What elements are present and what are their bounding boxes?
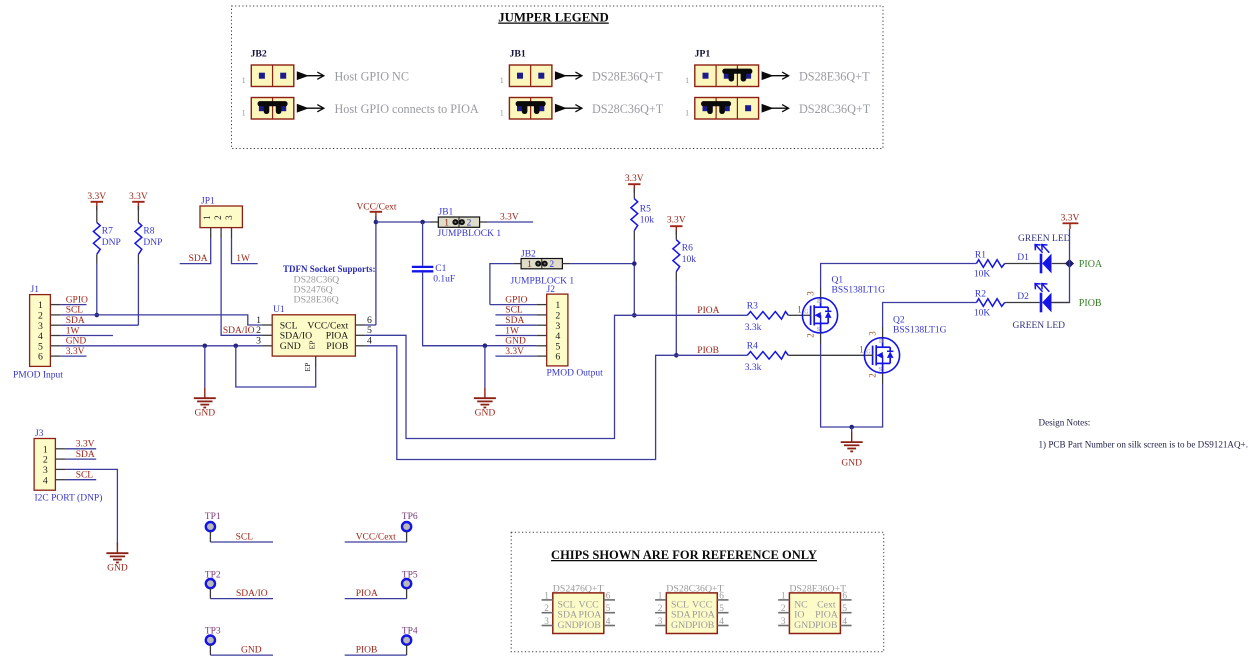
svg-text:3.3k: 3.3k bbox=[745, 323, 762, 333]
wire C1 bottom to GND wire bbox=[423, 272, 485, 345]
wire Q1 drain up to R1 row bbox=[821, 264, 977, 288]
wire SCL J1 to U1 pin1 bbox=[61, 315, 262, 325]
svg-text:GPIO: GPIO bbox=[66, 295, 88, 305]
jumper JB1 open bbox=[509, 65, 552, 87]
svg-text:DNP: DNP bbox=[102, 238, 121, 248]
svg-text:U1: U1 bbox=[273, 305, 285, 315]
SECTION: jumper legend bbox=[232, 6, 884, 149]
wire R7 to SCL bbox=[96, 264, 98, 316]
svg-text:1: 1 bbox=[527, 260, 532, 270]
ground (J3) bbox=[106, 543, 128, 563]
wire R4 to Q2 gate bbox=[788, 354, 865, 356]
arrow bbox=[297, 71, 324, 80]
svg-text:SDA: SDA bbox=[189, 254, 208, 264]
junction GND/gnd-symbol bbox=[203, 344, 208, 349]
svg-text:1W: 1W bbox=[236, 254, 250, 264]
svg-text:GND: GND bbox=[505, 337, 526, 347]
svg-text:S: S bbox=[817, 327, 820, 333]
svg-text:R4: R4 bbox=[747, 341, 758, 351]
svg-text:JB1: JB1 bbox=[510, 49, 526, 60]
wire J2 SCL stub bbox=[495, 314, 536, 316]
svg-text:GREEN LED: GREEN LED bbox=[1018, 234, 1071, 244]
resistor R1 bbox=[976, 260, 1004, 268]
svg-text:0.1uF: 0.1uF bbox=[433, 275, 455, 285]
resistor R7 bbox=[96, 206, 98, 222]
junction sources/GND bbox=[849, 425, 854, 430]
wire J1 GPIO stub bbox=[61, 304, 87, 306]
svg-text:SDA: SDA bbox=[76, 450, 95, 460]
svg-text:C1: C1 bbox=[435, 264, 446, 274]
svg-text:1W: 1W bbox=[505, 326, 519, 336]
wire 1W stub bbox=[61, 335, 113, 337]
svg-text:PIOB: PIOB bbox=[815, 620, 838, 631]
wire TP1 SCL bbox=[210, 541, 273, 543]
resistor R3 bbox=[747, 312, 788, 320]
svg-text:SCL: SCL bbox=[76, 471, 94, 481]
ground (Q1/Q2) bbox=[841, 432, 863, 452]
wire 3.3V down to junction bbox=[1069, 229, 1071, 264]
svg-text:10K: 10K bbox=[974, 270, 991, 280]
svg-text:Design Notes:: Design Notes: bbox=[1039, 418, 1091, 428]
svg-text:R6: R6 bbox=[682, 244, 693, 254]
svg-text:R1: R1 bbox=[975, 251, 986, 261]
svg-text:1: 1 bbox=[500, 108, 504, 118]
svg-text:CHIPS SHOWN ARE FOR REFERENCE: CHIPS SHOWN ARE FOR REFERENCE ONLY bbox=[551, 548, 817, 562]
wire PIOA from U1 pin5 bbox=[366, 315, 747, 438]
svg-text:DS28E36Q: DS28E36Q bbox=[294, 295, 339, 306]
svg-text:3.3V: 3.3V bbox=[87, 192, 106, 202]
svg-text:1: 1 bbox=[242, 108, 246, 118]
U1 pin numbers bbox=[256, 315, 372, 347]
svg-text:R5: R5 bbox=[640, 205, 651, 215]
svg-text:GND: GND bbox=[841, 459, 862, 469]
wire to gnd symbol bbox=[204, 346, 206, 388]
svg-text:JB1: JB1 bbox=[439, 208, 454, 218]
svg-text:SDA/IO: SDA/IO bbox=[223, 326, 255, 336]
svg-text:1: 1 bbox=[685, 75, 689, 85]
wire VCC vertical to U1 pin6 bbox=[375, 216, 377, 325]
svg-text:R8: R8 bbox=[143, 227, 154, 237]
svg-text:SCL: SCL bbox=[505, 306, 523, 316]
svg-text:EP: EP bbox=[303, 363, 312, 372]
chips reference dotted border bbox=[511, 532, 884, 652]
wire Q1 source down bbox=[821, 344, 852, 428]
svg-text:3: 3 bbox=[806, 291, 816, 296]
SECTION: bottom bbox=[205, 512, 884, 656]
svg-text:JP1: JP1 bbox=[201, 197, 215, 207]
svg-text:3.3V: 3.3V bbox=[625, 174, 644, 184]
svg-text:DS28E36Q+T: DS28E36Q+T bbox=[592, 70, 663, 84]
svg-text:10K: 10K bbox=[974, 309, 991, 319]
svg-text:Host GPIO NC: Host GPIO NC bbox=[335, 70, 410, 84]
svg-text:D: D bbox=[879, 339, 884, 345]
wire JP1 pin1 SDA stub bbox=[180, 238, 211, 264]
wire J3 pin3 to gnd bbox=[66, 469, 118, 545]
svg-text:3: 3 bbox=[256, 335, 261, 346]
wire J3 SDA stub bbox=[66, 458, 97, 460]
svg-text:S: S bbox=[879, 367, 882, 373]
svg-text:PMOD Output: PMOD Output bbox=[547, 369, 604, 379]
svg-text:JUMPER LEGEND: JUMPER LEGEND bbox=[498, 11, 609, 25]
wire J2 SDA stub bbox=[495, 324, 536, 326]
svg-text:PIOB: PIOB bbox=[1079, 298, 1102, 309]
svg-text:3.3V: 3.3V bbox=[500, 213, 519, 223]
svg-text:2: 2 bbox=[868, 373, 878, 378]
svg-text:JP1: JP1 bbox=[695, 49, 711, 60]
svg-text:1W: 1W bbox=[66, 326, 80, 336]
U1 pin stubs bbox=[262, 325, 366, 367]
svg-text:4: 4 bbox=[43, 475, 48, 486]
svg-text:PIOB: PIOB bbox=[326, 341, 348, 352]
wire junction down to D2 row bbox=[1052, 264, 1070, 303]
wire TP4 PIOB bbox=[345, 654, 407, 656]
wire VCC to JB1 bbox=[376, 221, 431, 223]
legend dotted border bbox=[232, 6, 884, 149]
junction GND J2 bbox=[483, 343, 488, 348]
svg-text:DS28E36Q+T: DS28E36Q+T bbox=[799, 70, 870, 84]
svg-text:3.3V: 3.3V bbox=[1061, 214, 1080, 224]
wire GND J1 to U1 pin3 bbox=[61, 345, 262, 347]
svg-text:BSS138LT1G: BSS138LT1G bbox=[832, 286, 886, 296]
svg-text:GND: GND bbox=[794, 620, 815, 631]
junction VCC wire bbox=[374, 220, 379, 225]
svg-text:R3: R3 bbox=[747, 301, 758, 311]
svg-text:Q1: Q1 bbox=[832, 276, 844, 286]
capacitor C1 bbox=[422, 222, 424, 266]
svg-text:JUMPBLOCK 1: JUMPBLOCK 1 bbox=[511, 277, 575, 287]
svg-text:3.3V: 3.3V bbox=[76, 440, 95, 450]
svg-text:1: 1 bbox=[444, 219, 449, 229]
arrow bbox=[555, 104, 582, 113]
svg-text:BSS138LT1G: BSS138LT1G bbox=[893, 326, 947, 336]
wire Q2 drain up to R2 row bbox=[883, 303, 977, 328]
svg-text:GND: GND bbox=[241, 646, 262, 656]
svg-text:G: G bbox=[804, 310, 809, 316]
svg-text:1: 1 bbox=[797, 305, 802, 315]
svg-text:VCC/Cext: VCC/Cext bbox=[356, 533, 396, 543]
svg-text:GND: GND bbox=[195, 409, 216, 419]
svg-text:R2: R2 bbox=[975, 290, 986, 300]
wire to gnd (Q1/Q2) bbox=[851, 427, 853, 432]
wire to gnd symbol (J2) bbox=[484, 346, 486, 388]
svg-text:GREEN LED: GREEN LED bbox=[1013, 321, 1066, 331]
wire JB1 to 3.3V stub bbox=[480, 221, 488, 223]
junction R5/PIOA bbox=[632, 313, 637, 318]
svg-text:2: 2 bbox=[549, 260, 554, 270]
wire EP loop bbox=[236, 346, 316, 387]
wire J2 GND (from C1 drop) bbox=[423, 345, 537, 347]
svg-text:DNP: DNP bbox=[143, 238, 162, 248]
wire 3.3V stub bbox=[61, 355, 87, 357]
svg-text:PIOB: PIOB bbox=[692, 620, 715, 631]
svg-text:Host GPIO connects to PIOA: Host GPIO connects to PIOA bbox=[335, 102, 479, 116]
svg-text:GND: GND bbox=[107, 564, 128, 574]
junction GND/EP loop bbox=[234, 344, 239, 349]
svg-text:D: D bbox=[817, 299, 822, 305]
svg-text:SCL: SCL bbox=[236, 533, 254, 543]
svg-text:10k: 10k bbox=[640, 216, 655, 226]
wire TP3 GND bbox=[210, 654, 273, 656]
svg-text:DS28C36Q+T: DS28C36Q+T bbox=[799, 102, 871, 116]
wire TP6 VCC/Cext bbox=[345, 541, 407, 543]
jumper JB2 shunted bbox=[251, 98, 293, 120]
svg-text:2: 2 bbox=[806, 333, 816, 338]
svg-text:1: 1 bbox=[859, 345, 864, 355]
svg-text:PMOD Input: PMOD Input bbox=[13, 371, 63, 381]
junction R6/PIOB bbox=[674, 353, 679, 358]
svg-text:1: 1 bbox=[202, 215, 212, 220]
svg-text:R7: R7 bbox=[102, 227, 113, 237]
svg-text:1: 1 bbox=[685, 108, 689, 118]
ground (J2) bbox=[474, 388, 496, 408]
wire TP5 PIOA bbox=[345, 598, 407, 600]
wire JP1 pin2 down to U1 pin2 bbox=[221, 238, 262, 335]
arrow bbox=[762, 71, 789, 80]
svg-text:10k: 10k bbox=[682, 255, 697, 265]
svg-text:EP: EP bbox=[308, 341, 317, 350]
svg-text:3: 3 bbox=[224, 215, 234, 220]
wire R2 to D2 bbox=[1005, 302, 1040, 304]
svg-text:3.3k: 3.3k bbox=[745, 363, 762, 373]
svg-text:SCL: SCL bbox=[66, 306, 84, 316]
wire Q2 source down bbox=[852, 384, 883, 428]
J1 pin stubs bbox=[50, 305, 60, 357]
svg-text:GND: GND bbox=[66, 337, 87, 347]
wire R3 to Q1 gate bbox=[788, 314, 803, 316]
jumper JB1 shunted bbox=[509, 98, 552, 120]
resistor R2 bbox=[976, 299, 1004, 307]
wire J2 GPIO from JB2 bbox=[490, 304, 537, 306]
junction JB2/R5 bbox=[632, 261, 637, 266]
svg-text:GPIO: GPIO bbox=[505, 295, 527, 305]
svg-text:SDA: SDA bbox=[505, 316, 524, 326]
svg-text:DS28C36Q+T: DS28C36Q+T bbox=[592, 102, 664, 116]
wire R6 down to PIOB bbox=[675, 281, 677, 355]
wire J2 1W stub bbox=[495, 335, 536, 337]
wire R1 to D1 bbox=[1005, 263, 1040, 265]
wire J2 3.3V stub bbox=[495, 355, 536, 357]
svg-text:3.3V: 3.3V bbox=[66, 347, 85, 357]
svg-text:SDA/IO: SDA/IO bbox=[236, 589, 268, 599]
J2 pin stubs bbox=[536, 305, 546, 357]
svg-text:PIOB: PIOB bbox=[697, 346, 719, 356]
arrow bbox=[555, 71, 582, 80]
wire D2 anode bbox=[1052, 302, 1070, 304]
svg-text:TP1: TP1 bbox=[205, 512, 221, 522]
svg-text:Q2: Q2 bbox=[893, 316, 905, 326]
svg-text:SDA: SDA bbox=[66, 316, 85, 326]
svg-text:GND: GND bbox=[671, 620, 692, 631]
wire JB2 to R5 junction bbox=[562, 263, 570, 265]
jumper JP1 row1 3pin shunt right bbox=[695, 65, 759, 87]
arrow bbox=[762, 104, 789, 113]
junction R7/SCL bbox=[95, 313, 100, 318]
resistor R8 bbox=[137, 206, 139, 222]
SECTION: center bbox=[223, 203, 634, 419]
jumper JP1 row2 3pin shunt left bbox=[695, 98, 759, 120]
svg-text:1: 1 bbox=[500, 75, 504, 85]
svg-text:2: 2 bbox=[467, 219, 472, 229]
svg-text:3.3V: 3.3V bbox=[129, 192, 148, 202]
svg-text:1) PCB Part Number on silk scr: 1) PCB Part Number on silk screen is to … bbox=[1039, 439, 1248, 449]
svg-text:D1: D1 bbox=[1017, 253, 1029, 263]
svg-text:PIOA: PIOA bbox=[697, 306, 719, 316]
ground (U1 area) bbox=[194, 388, 216, 408]
svg-text:PIOB: PIOB bbox=[579, 620, 602, 631]
svg-text:GND: GND bbox=[280, 341, 301, 352]
wire J3 3.3V stub bbox=[66, 448, 97, 450]
svg-text:4: 4 bbox=[367, 335, 372, 346]
svg-text:3.3V: 3.3V bbox=[667, 216, 686, 226]
wire TP2 SDA/IO bbox=[210, 598, 273, 600]
svg-text:G: G bbox=[866, 350, 871, 356]
svg-text:3.3V: 3.3V bbox=[505, 347, 524, 357]
resistor R4 bbox=[747, 352, 788, 360]
SECTION: right bbox=[366, 174, 1248, 469]
wire D1 anode to junction bbox=[1052, 263, 1070, 265]
svg-text:PIOA: PIOA bbox=[1079, 259, 1103, 270]
junction C1 top bbox=[420, 220, 425, 225]
svg-text:J3: J3 bbox=[35, 429, 44, 439]
svg-text:6: 6 bbox=[555, 352, 560, 363]
resistor R5 bbox=[633, 188, 635, 198]
svg-text:J1: J1 bbox=[31, 285, 40, 295]
wire PIOB from U1 pin4 bbox=[366, 346, 747, 460]
svg-text:2: 2 bbox=[213, 215, 223, 220]
junction PIOA bbox=[1065, 259, 1074, 268]
SECTION: left column bbox=[13, 192, 316, 574]
JP1 pin stubs bbox=[210, 228, 212, 238]
arrow bbox=[297, 104, 324, 113]
svg-text:JUMPBLOCK 1: JUMPBLOCK 1 bbox=[438, 229, 502, 239]
svg-text:TP6: TP6 bbox=[402, 512, 418, 522]
svg-text:TDFN Socket Supports:: TDFN Socket Supports: bbox=[283, 264, 376, 274]
svg-text:JB2: JB2 bbox=[251, 49, 267, 60]
J3 pin stubs bbox=[55, 449, 65, 480]
svg-text:GND: GND bbox=[558, 620, 579, 631]
svg-text:6: 6 bbox=[38, 352, 43, 363]
wire JP1 pin3 1W stub bbox=[232, 238, 258, 264]
wire R5 down to PIOA bbox=[633, 240, 635, 315]
svg-text:PIOA: PIOA bbox=[356, 589, 378, 599]
wire R8 to SDA bbox=[137, 264, 139, 326]
svg-text:PIOB: PIOB bbox=[356, 646, 378, 656]
wire SDA J1 to R8 bbox=[61, 324, 139, 326]
svg-text:3: 3 bbox=[868, 331, 878, 336]
resistor R6 bbox=[675, 230, 677, 239]
svg-text:GND: GND bbox=[475, 409, 496, 419]
svg-text:I2C PORT (DNP): I2C PORT (DNP) bbox=[35, 493, 103, 504]
jumper JB2 open bbox=[251, 65, 293, 87]
wire J3 SCL stub bbox=[66, 479, 97, 481]
svg-text:D2: D2 bbox=[1017, 292, 1029, 302]
svg-text:1: 1 bbox=[242, 75, 246, 85]
